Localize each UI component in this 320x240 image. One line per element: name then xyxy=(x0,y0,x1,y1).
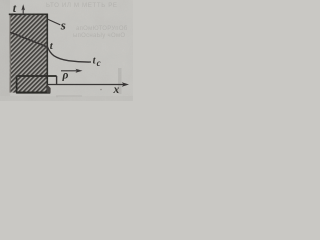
background paper xyxy=(0,0,133,101)
step bottom line xyxy=(16,92,50,94)
film grain xyxy=(0,0,133,101)
dark corner blob bottom-right of wall xyxy=(47,85,51,93)
wall top edge xyxy=(9,13,48,15)
x axis arrowhead xyxy=(122,82,129,86)
paper smudge bottom xyxy=(56,95,82,97)
left margin shading xyxy=(0,0,10,101)
temperature curve in fluid xyxy=(47,47,91,62)
t axis arrowhead xyxy=(21,4,25,10)
rho flow arrow xyxy=(61,70,77,72)
step line below wall xyxy=(17,75,57,77)
wall right edge xyxy=(46,14,48,93)
paper speck 2 xyxy=(56,96,57,97)
x axis xyxy=(48,84,127,86)
bottom margin shading xyxy=(0,96,133,101)
step left vertical xyxy=(16,76,18,94)
paper blotches xyxy=(0,0,133,101)
wall left ragged edge xyxy=(9,14,11,92)
ghost vertical streak right side xyxy=(118,68,122,94)
t axis shaft xyxy=(22,6,24,14)
wall top edge ragged bump xyxy=(10,13,15,15)
step right vertical xyxy=(56,76,58,85)
paper speck 1 xyxy=(100,89,102,91)
wall hatched block xyxy=(10,14,48,92)
temperature line inside wall xyxy=(10,32,47,47)
leader line to s xyxy=(48,19,61,25)
